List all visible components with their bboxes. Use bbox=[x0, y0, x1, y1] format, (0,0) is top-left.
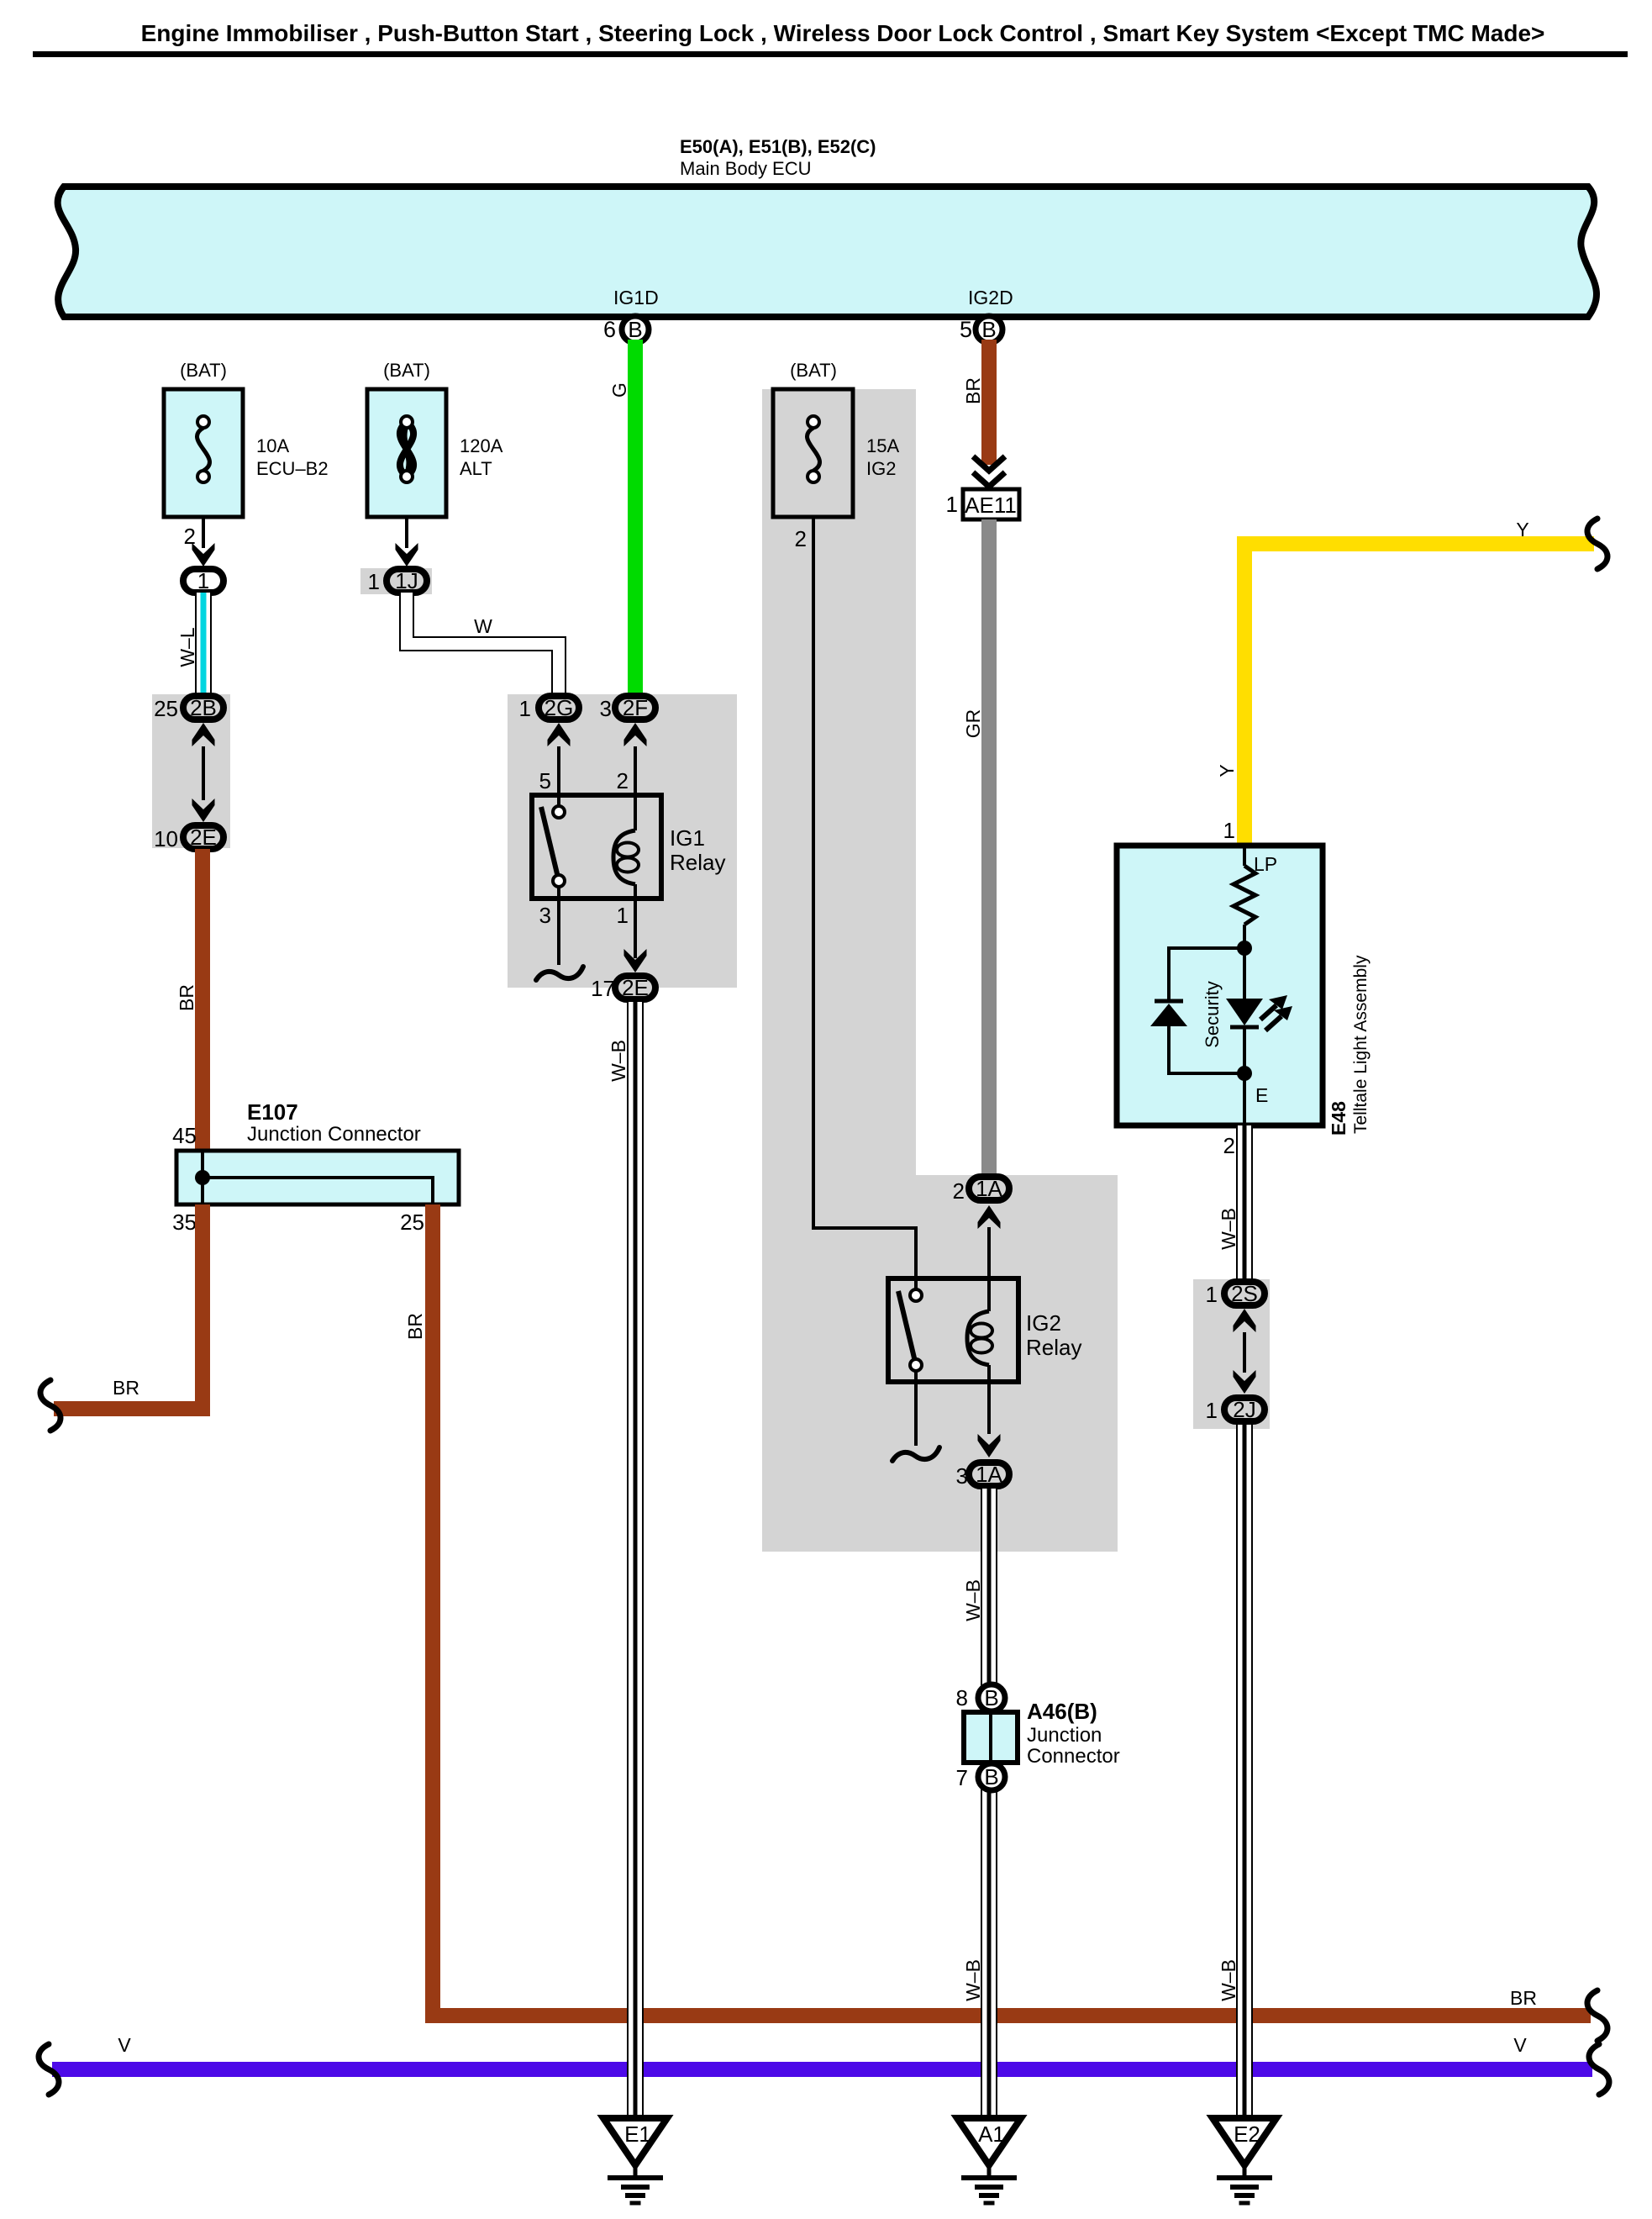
svg-text:IG2: IG2 bbox=[1026, 1310, 1061, 1336]
connector 1A (pin 2) bbox=[953, 1176, 1009, 1229]
svg-text:LP: LP bbox=[1254, 853, 1277, 875]
svg-text:E48: E48 bbox=[1328, 1101, 1349, 1136]
svg-text:2J: 2J bbox=[1233, 1397, 1255, 1422]
svg-text:B: B bbox=[628, 317, 642, 342]
svg-text:25: 25 bbox=[400, 1210, 424, 1235]
svg-text:B: B bbox=[981, 317, 996, 342]
wire: 2S to 2J bbox=[1234, 1332, 1256, 1394]
svg-text:10: 10 bbox=[154, 826, 178, 851]
svg-text:W–B: W–B bbox=[608, 1040, 629, 1082]
connector 2B (pin 25) bbox=[154, 695, 224, 746]
svg-text:(BAT): (BAT) bbox=[180, 360, 227, 381]
svg-text:ALT: ALT bbox=[460, 458, 492, 479]
ground E2 bbox=[1213, 2118, 1276, 2203]
svg-text:3: 3 bbox=[600, 696, 612, 721]
svg-text:Y: Y bbox=[1216, 764, 1238, 777]
svg-text:Security: Security bbox=[1202, 981, 1223, 1047]
svg-text:5: 5 bbox=[539, 768, 551, 793]
svg-text:1A: 1A bbox=[976, 1176, 1002, 1201]
svg-text:W–B: W–B bbox=[1218, 1208, 1239, 1250]
svg-text:2B: 2B bbox=[190, 695, 217, 720]
connector oval 1 (below fuse ECU-B2) bbox=[183, 568, 224, 593]
connector 2E (pin 10) bbox=[154, 825, 224, 851]
svg-text:B: B bbox=[984, 1685, 998, 1710]
svg-text:E50(A), E51(B), E52(C): E50(A), E51(B), E52(C) bbox=[680, 136, 876, 157]
wire: 2F to IG1 relay pin 2 bbox=[617, 746, 635, 797]
svg-text:2: 2 bbox=[617, 768, 629, 793]
svg-text:Main Body ECU: Main Body ECU bbox=[680, 158, 812, 179]
wire W-B: junction connector A46 pin 7 to ground A1 bbox=[962, 1789, 989, 2118]
junction connector A46(B) bbox=[964, 1699, 1120, 1768]
svg-text:E2: E2 bbox=[1234, 2121, 1260, 2147]
wire W-B: connector 2E pin17 to ground E1 bbox=[608, 1002, 635, 2118]
svg-text:8: 8 bbox=[956, 1685, 968, 1710]
wire: IG1 relay pin 1 to connector 2E pin 17 bbox=[617, 899, 647, 972]
svg-text:2: 2 bbox=[795, 526, 807, 551]
wire W-B crossing segments over BR and V bbox=[627, 1992, 644, 2101]
junction node (top, inside E48) bbox=[1237, 941, 1252, 956]
gray background: 15A IG2 fuse band and IG2 relay area bbox=[762, 389, 1118, 1552]
svg-text:45: 45 bbox=[172, 1123, 197, 1148]
double chevron into AE11 bbox=[973, 456, 1005, 487]
gray background: connector 1J bbox=[360, 568, 432, 594]
wire: fuse ECU-B2 pin 2 to connector 1 bbox=[184, 517, 215, 567]
junction connector E107 bbox=[172, 1099, 459, 1235]
svg-text:3: 3 bbox=[539, 903, 551, 928]
wire: 2B to 2E bbox=[192, 746, 215, 822]
svg-text:7: 7 bbox=[956, 1765, 968, 1790]
node IG2D (ECU pin 5 B) bbox=[960, 287, 1013, 343]
svg-text:AE11: AE11 bbox=[965, 493, 1017, 518]
svg-text:Junction Connector: Junction Connector bbox=[247, 1123, 421, 1146]
svg-text:E: E bbox=[1255, 1084, 1268, 1106]
svg-text:Y: Y bbox=[1516, 519, 1528, 540]
wire W-B: E48 pin 2 to connector 2S bbox=[1218, 1125, 1244, 1282]
svg-text:2E: 2E bbox=[622, 975, 649, 1000]
junction connector A46(B) pin 8 bbox=[956, 1684, 1005, 1711]
wire: 2G to IG1 relay pin 5 bbox=[539, 746, 559, 809]
svg-text:1: 1 bbox=[617, 903, 629, 928]
wire Y: from other page to E48 pin 1 bbox=[1216, 519, 1607, 846]
svg-text:BR: BR bbox=[176, 984, 197, 1011]
wire W-L: connector 1 to 2B bbox=[176, 593, 203, 694]
wire: LED cathode to E48 pin E bbox=[1244, 1073, 1268, 1125]
svg-text:A1: A1 bbox=[978, 2121, 1005, 2147]
junction connector A46(B) pin 7 bbox=[956, 1763, 1005, 1790]
svg-text:W–L: W–L bbox=[176, 627, 198, 667]
connector AE11 (pin 1) bbox=[946, 489, 1019, 519]
wire: IG2 relay coil to connector 1A pin 3 bbox=[978, 1382, 1001, 1457]
svg-text:BR: BR bbox=[962, 377, 984, 404]
wire BR: ECU IG2D to AE11 bbox=[962, 340, 989, 465]
title underline rule bbox=[33, 51, 1628, 57]
svg-text:2: 2 bbox=[953, 1178, 965, 1204]
wire: 1A pin2 to IG2 relay coil bbox=[987, 1227, 991, 1278]
svg-text:Relay: Relay bbox=[1026, 1335, 1081, 1360]
svg-text:Relay: Relay bbox=[670, 850, 725, 875]
gray background: connector 2B/2E bbox=[152, 694, 230, 848]
resistor LP (inside E48) bbox=[1234, 846, 1277, 948]
wire BR: E107 pin 25 to other page (break, bottom) bbox=[404, 1204, 1607, 2041]
node IG1D (ECU pin 6 B) bbox=[603, 287, 659, 343]
wire V: across bottom (breaks both ends) bbox=[39, 2034, 1609, 2095]
wire W-B: connector 1A pin3 to junction connector A46 pin 8 bbox=[962, 1489, 989, 1686]
title: system heading bbox=[141, 20, 1545, 46]
svg-text:Connector: Connector bbox=[1027, 1745, 1120, 1768]
svg-text:1: 1 bbox=[946, 492, 958, 517]
connector 2J (pin 1) bbox=[1206, 1397, 1265, 1423]
junction node (bottom, inside E48) bbox=[1237, 1066, 1252, 1081]
gray background: connector 2S/2J bbox=[1193, 1279, 1270, 1429]
svg-text:BR: BR bbox=[1510, 1987, 1537, 2009]
svg-text:2E: 2E bbox=[190, 825, 217, 850]
svg-text:6: 6 bbox=[603, 317, 616, 342]
svg-text:1: 1 bbox=[1223, 818, 1235, 843]
relay IG1 bbox=[532, 795, 725, 899]
svg-text:1J: 1J bbox=[395, 568, 418, 593]
svg-text:IG2: IG2 bbox=[866, 458, 896, 479]
connector 2G (pin 1) bbox=[519, 695, 579, 746]
gray background: IG1 relay area bbox=[508, 694, 737, 988]
svg-text:IG1: IG1 bbox=[670, 825, 705, 851]
svg-text:15A: 15A bbox=[866, 435, 899, 456]
svg-text:Engine Immobiliser , Push-Butt: Engine Immobiliser , Push-Button Start ,… bbox=[141, 20, 1545, 46]
fuse 15A IG2 bbox=[773, 360, 899, 517]
svg-text:W: W bbox=[474, 615, 492, 637]
connector 1J (pin 1) bbox=[368, 568, 427, 594]
svg-text:E1: E1 bbox=[624, 2121, 651, 2147]
ground E1 bbox=[603, 2118, 667, 2203]
svg-text:BR: BR bbox=[113, 1377, 139, 1399]
ground A1 bbox=[957, 2118, 1021, 2203]
svg-text:V: V bbox=[118, 2034, 131, 2056]
svg-text:IG2D: IG2D bbox=[968, 287, 1013, 308]
svg-text:IG1D: IG1D bbox=[613, 287, 659, 308]
label E48 Telltale Light Assembly bbox=[1328, 955, 1371, 1136]
wire: fuse IG2 pin 2 to IG2 relay switch bbox=[795, 517, 916, 1295]
svg-text:1: 1 bbox=[1206, 1282, 1218, 1307]
svg-text:5: 5 bbox=[960, 317, 972, 342]
Main Body ECU E50/E51/E52 block bbox=[58, 136, 1597, 317]
svg-text:B: B bbox=[984, 1764, 998, 1789]
svg-text:E107: E107 bbox=[247, 1099, 298, 1125]
svg-text:1: 1 bbox=[1206, 1398, 1218, 1423]
svg-text:1: 1 bbox=[519, 696, 531, 721]
fuse 10A ECU-B2 bbox=[164, 360, 329, 517]
wire GR: AE11 to IG2 relay connector 1A pin 2 bbox=[962, 519, 989, 1174]
svg-text:BR: BR bbox=[404, 1313, 426, 1340]
svg-text:Telltale Light Assembly: Telltale Light Assembly bbox=[1351, 955, 1371, 1134]
relay IG2 bbox=[888, 1278, 1081, 1382]
connector 2S (pin 1) bbox=[1206, 1281, 1265, 1332]
svg-text:W–B: W–B bbox=[962, 1579, 984, 1621]
svg-text:2F: 2F bbox=[623, 695, 648, 720]
svg-text:35: 35 bbox=[172, 1210, 197, 1235]
svg-text:GR: GR bbox=[962, 709, 984, 739]
wire: IG1 relay pin 3 to other system (break) bbox=[536, 887, 583, 980]
connector 2E (pin 17) bbox=[591, 975, 655, 1001]
wire W: 1J to relay connector 2G bbox=[407, 593, 559, 694]
svg-text:1: 1 bbox=[368, 569, 380, 594]
svg-text:17: 17 bbox=[591, 976, 615, 1001]
wire G: ECU IG1D to relay connector 2F bbox=[608, 340, 635, 694]
telltale light assembly E48 bbox=[1117, 846, 1323, 1125]
svg-text:10A: 10A bbox=[256, 435, 289, 456]
svg-text:(BAT): (BAT) bbox=[383, 360, 430, 381]
wire BR: E107 pin 35 to other page (break) bbox=[40, 1204, 203, 1431]
connector 1A (pin 3) bbox=[956, 1462, 1009, 1489]
svg-text:(BAT): (BAT) bbox=[790, 360, 837, 381]
svg-text:Junction: Junction bbox=[1027, 1724, 1102, 1747]
wire W-B: connector 2J to ground E2 bbox=[1218, 1421, 1244, 2118]
svg-text:G: G bbox=[608, 382, 630, 398]
svg-text:ECU–B2: ECU–B2 bbox=[256, 458, 329, 479]
svg-text:2: 2 bbox=[1223, 1133, 1235, 1158]
svg-text:25: 25 bbox=[154, 696, 178, 721]
svg-text:2G: 2G bbox=[545, 695, 574, 720]
svg-text:A46(B): A46(B) bbox=[1027, 1699, 1097, 1724]
svg-text:120A: 120A bbox=[460, 435, 503, 456]
fuse 120A ALT bbox=[367, 360, 503, 517]
LED Security (inside E48) bbox=[1202, 948, 1292, 1073]
wire: IG2 relay switch to other system (break) bbox=[892, 1371, 939, 1461]
wire BR: 2E to E107 pin 45 bbox=[176, 849, 203, 1151]
wire: fuse ALT to connector 1J bbox=[396, 517, 418, 567]
diode (inside E48) bbox=[1150, 948, 1244, 1073]
svg-text:2S: 2S bbox=[1231, 1281, 1258, 1306]
svg-text:1A: 1A bbox=[976, 1462, 1002, 1487]
svg-text:1: 1 bbox=[197, 568, 209, 593]
connector 2F (pin 3) bbox=[600, 695, 655, 746]
svg-text:V: V bbox=[1513, 2034, 1527, 2056]
